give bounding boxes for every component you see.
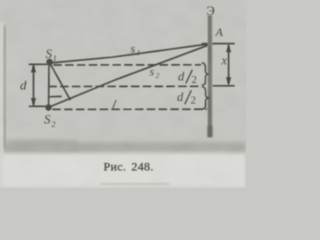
d arrow head top [31,65,36,73]
source S2 dot [45,104,51,110]
tick at A level [203,43,235,45]
bottom shadow band of figure [2,142,246,152]
left border shadow line [4,26,6,148]
tick at top of d arrow [30,63,48,65]
brace d/2 lower [202,87,209,110]
d dimension arrow shaft [33,66,35,105]
d arrow head bottom [31,98,36,106]
slash of upper d/2 [186,70,193,84]
ray s1 from S1 to A [50,44,211,63]
angle tick at S2 [49,95,61,97]
brace d/2 upper [202,63,209,86]
left page margin light strip [0,22,4,188]
streak under caption [100,183,170,185]
dashed central axis [49,85,200,87]
source S1 dot [46,59,52,65]
film grain [0,0,246,188]
ray s2 from S2 to A [49,44,211,107]
tick at axis level right of screen [213,85,234,87]
paper background [0,0,246,188]
x dimension arrow shaft [228,46,230,84]
lighter page area below figure [0,152,246,188]
x arrow head top [226,44,231,52]
scan mottle dark [0,0,246,188]
slash of lower d/2 [185,90,192,104]
wire S1-S2 vertical [48,62,50,107]
dashed line from S1 [54,64,201,66]
screen bar darker lower tip [208,126,212,137]
perpendicular from S1 to ray s2 [50,63,71,100]
tick at bottom of d arrow [30,105,46,107]
bottom-left darker blotch [8,140,78,151]
x arrow head bottom [226,77,231,85]
dashed line from S2 [53,108,207,110]
screen bar [208,16,213,138]
scan mottle light [0,0,246,188]
